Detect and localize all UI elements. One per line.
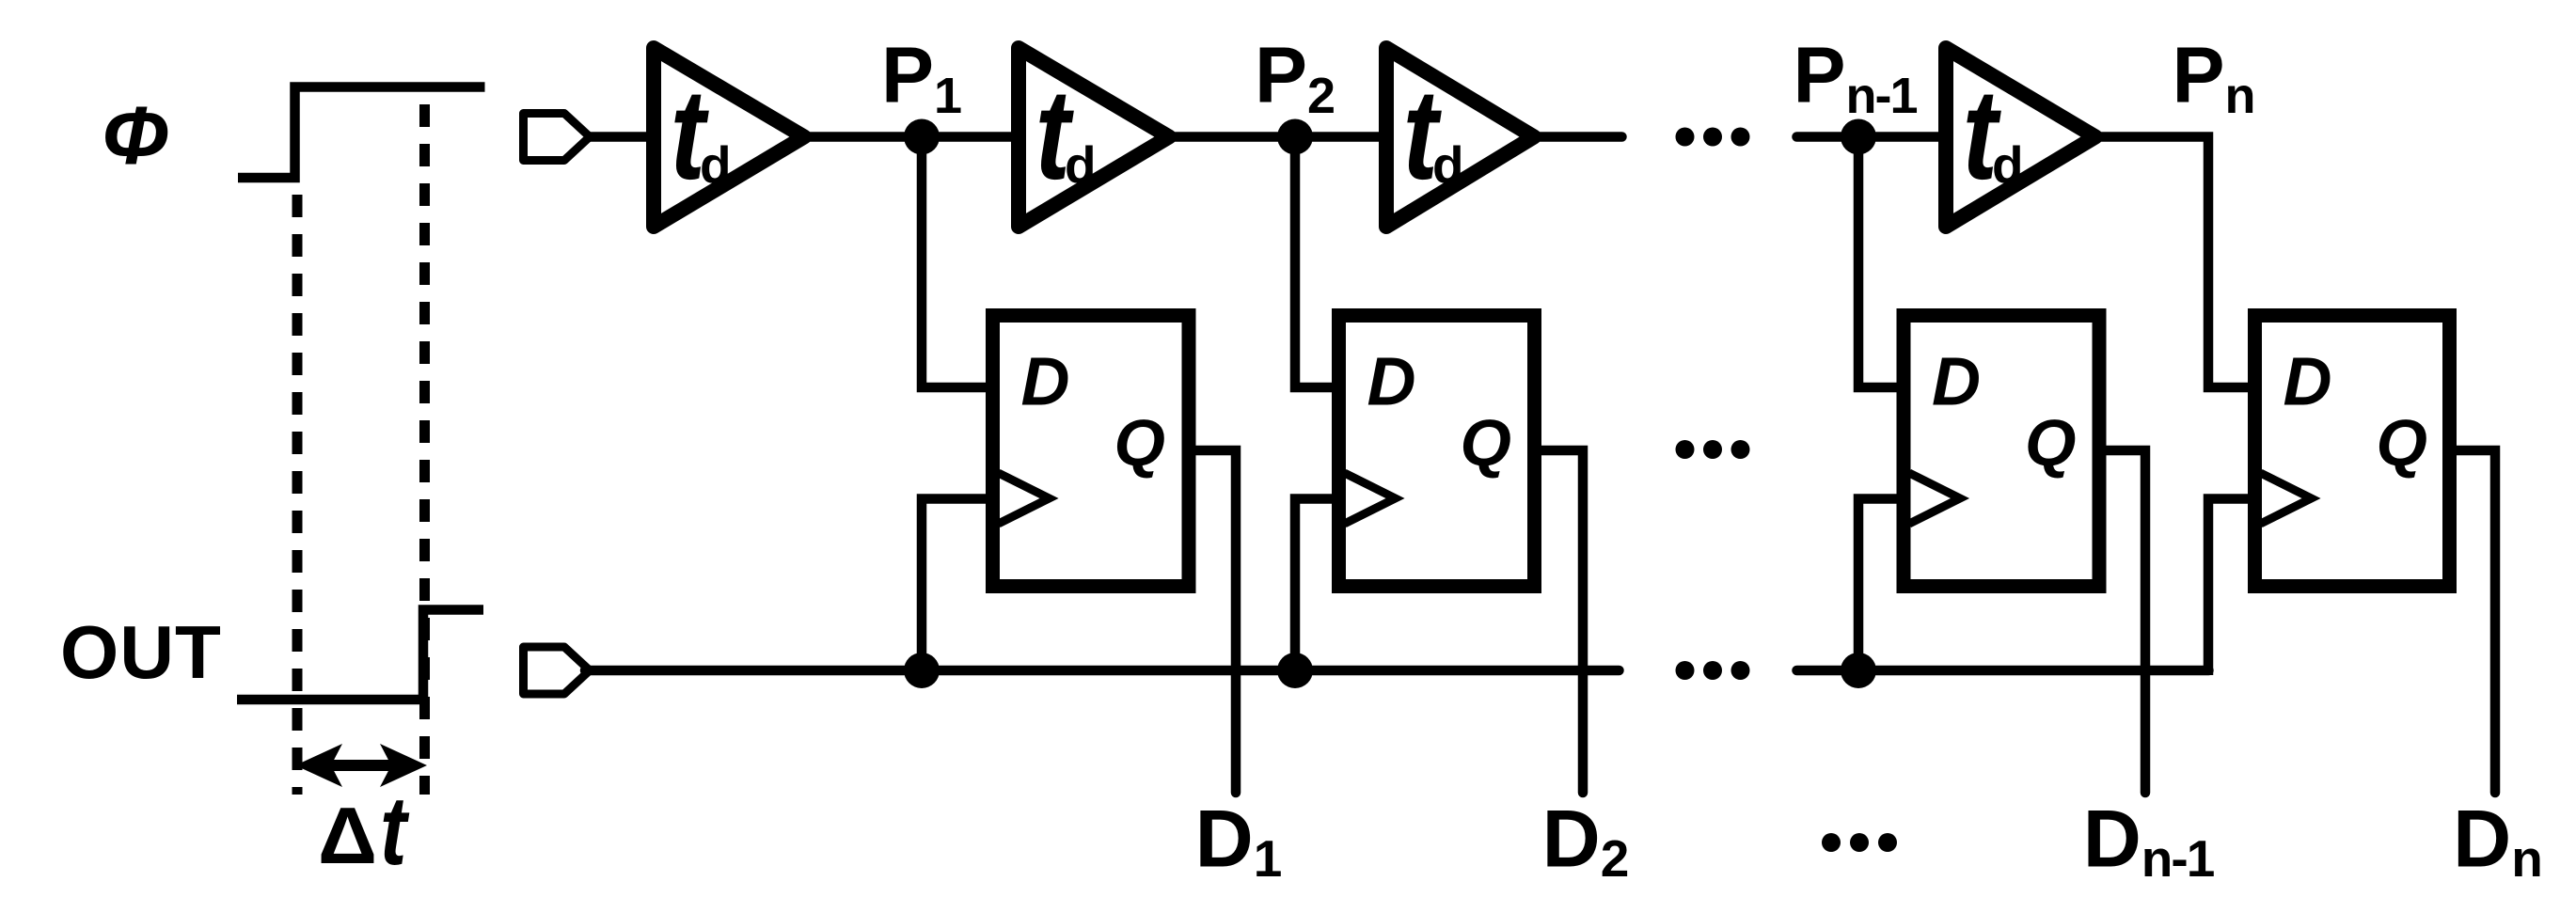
svg-text:Dn: Dn <box>2453 795 2543 889</box>
delay buffer U1 <box>654 48 804 227</box>
svg-text:Q: Q <box>2377 406 2427 480</box>
FF4 clock pin chevron <box>2261 473 2312 524</box>
svg-text:d: d <box>1065 135 1097 194</box>
wire node P2 to FF2 D input <box>1295 137 1347 388</box>
wire FF3 clock to OUT bus <box>1858 499 1904 671</box>
svg-text:D: D <box>1367 345 1416 420</box>
flip-flop FF1 body <box>993 316 1190 587</box>
svg-text:P2: P2 <box>1255 31 1335 125</box>
junction P2 on delay line <box>1277 119 1313 155</box>
svg-text:OUT: OUT <box>60 610 222 694</box>
input port OUT (stop pad) <box>524 647 591 694</box>
ellipsis delay chain continues <box>1676 128 1695 147</box>
svg-text:Pn-1: Pn-1 <box>1793 31 1917 125</box>
svg-text:D1: D1 <box>1195 795 1283 889</box>
junction FF3 clock on OUT bus <box>1841 653 1876 688</box>
delta-t arrow shaft <box>320 760 403 771</box>
delta-t arrow right head <box>380 744 427 787</box>
svg-text:t: t <box>380 777 409 886</box>
flip-flop FF4 body <box>2255 316 2450 587</box>
wire U4 output to FFn D (node Pn) <box>2095 137 2262 388</box>
delay buffer U4 <box>1946 48 2095 227</box>
FF2 clock pin chevron <box>1345 473 1396 524</box>
svg-text:D: D <box>1021 345 1070 420</box>
wire FF4 Q output to Dn <box>2450 450 2496 793</box>
svg-text:d: d <box>700 135 732 194</box>
waveform OUT rising edge <box>237 610 483 700</box>
wire into U4 (through node Pn-1) <box>1797 132 1954 142</box>
wire FF1 Q output to D1 <box>1189 450 1236 793</box>
svg-text:Q: Q <box>1461 406 1511 480</box>
svg-text:Dn-1: Dn-1 <box>2083 795 2215 889</box>
wire U3 output <box>1534 132 1622 142</box>
svg-text:P1: P1 <box>881 31 962 125</box>
input port PHI (clock pad) <box>524 114 591 161</box>
junction FF1 clock on OUT bus <box>904 653 940 688</box>
svg-text:Φ: Φ <box>102 90 169 181</box>
FF3 clock pin chevron <box>1909 473 1960 524</box>
svg-text:D: D <box>1932 345 1981 420</box>
delay buffer U3 <box>1386 48 1534 227</box>
junction FF2 clock on OUT bus <box>1277 653 1313 688</box>
flip-flop FF3 body <box>1904 316 2099 587</box>
delta-t arrow left head <box>295 744 342 787</box>
svg-text:D: D <box>2284 345 2332 420</box>
ellipsis output bits continue <box>1822 833 1841 852</box>
wire U2 to U3 (through node P2) <box>1169 132 1386 142</box>
wire FF2 clock to OUT bus <box>1295 499 1339 671</box>
junction Pn-1 on delay line <box>1841 119 1876 155</box>
svg-text:Q: Q <box>2025 406 2076 480</box>
waveform PHI rising edge <box>238 87 485 179</box>
flip-flop FF2 body <box>1339 316 1535 587</box>
svg-text:Pn: Pn <box>2172 31 2255 125</box>
svg-text:d: d <box>1992 135 2024 194</box>
wire node Pn-1 to FF3 D input <box>1858 137 1911 388</box>
wire PHI pad to U1 <box>585 132 661 142</box>
ellipsis Q outputs continue <box>1676 440 1695 459</box>
wire FF2 Q output to D2 <box>1535 450 1584 793</box>
net OUT bus right segment <box>1797 666 2209 676</box>
dashed marker at OUT edge <box>419 104 430 795</box>
wire U1 to U2 (through node P1) <box>804 132 1019 142</box>
wire FF4 clock from OUT bus end <box>2208 499 2255 676</box>
svg-text:d: d <box>1432 135 1464 194</box>
FF1 clock pin chevron <box>999 473 1050 524</box>
svg-text:D2: D2 <box>1542 795 1630 889</box>
net OUT bus left segment <box>585 666 1620 676</box>
junction P1 on delay line <box>904 119 940 155</box>
wire FF3 Q output to Dn-1 <box>2099 450 2145 793</box>
svg-text:Δ: Δ <box>318 792 377 881</box>
wire FF1 clock to OUT bus <box>922 499 993 671</box>
ellipsis OUT bus continues <box>1676 661 1695 680</box>
dashed marker at PHI edge <box>292 195 303 795</box>
delay buffer U2 <box>1019 48 1169 227</box>
wire node P1 to FF1 D input <box>922 137 1001 388</box>
svg-text:Q: Q <box>1114 406 1165 480</box>
